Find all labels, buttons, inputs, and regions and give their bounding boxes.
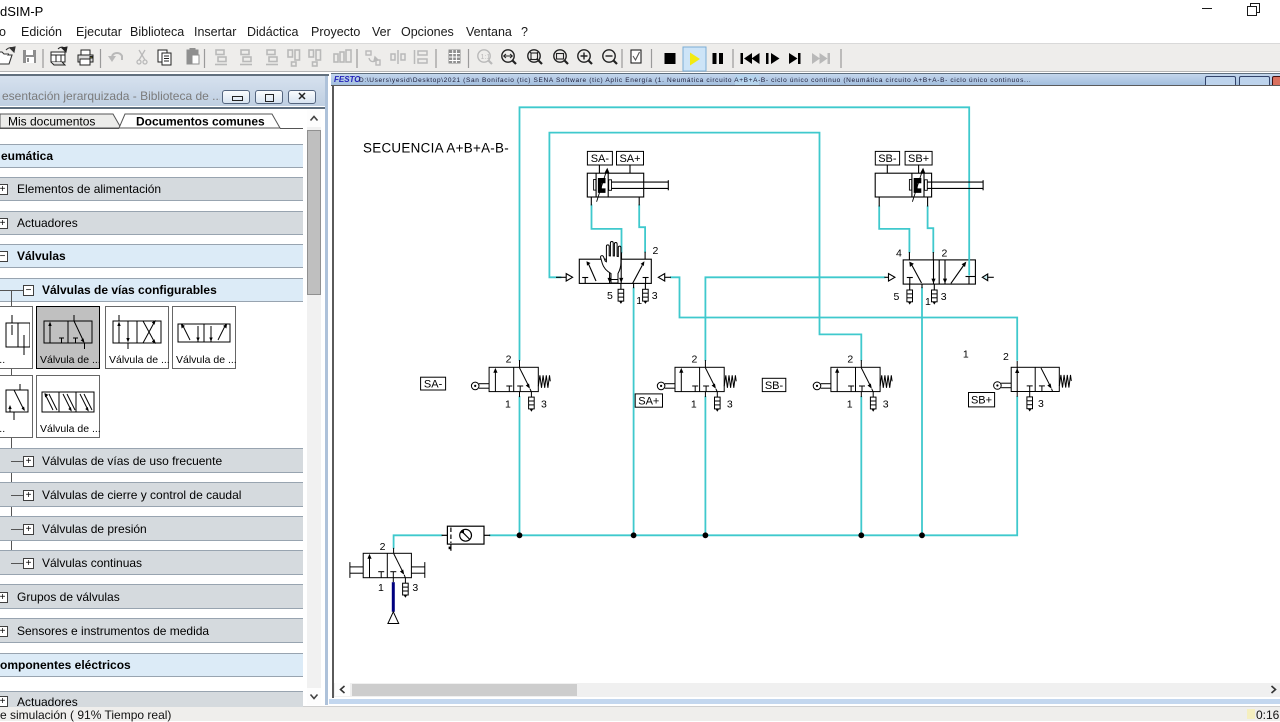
category rows xyxy=(0,448,303,473)
application title bar xyxy=(0,0,1280,22)
pilot port 12 (right) xyxy=(658,274,664,281)
start valve port numbers xyxy=(378,541,418,594)
valve SB+ port numbers xyxy=(963,349,1044,410)
thumbnails xyxy=(0,306,33,369)
menu bar xyxy=(0,22,1280,43)
pilot port 14 (left) xyxy=(884,276,888,278)
shut-off valve (llave de paso) xyxy=(442,526,491,551)
wire: valve A port 1 supply drop xyxy=(633,288,635,535)
restore glyph xyxy=(1250,3,1260,13)
wire: pilot feed overlay into valve V2 right pilot xyxy=(968,259,970,276)
wire: SB- output line from second top rail xyxy=(549,133,861,360)
valve V1 port numbers xyxy=(607,245,659,307)
limit valve SA- (3/2 roller) xyxy=(471,360,550,412)
cylinder A (double acting, retracted) xyxy=(587,165,668,205)
compressed air supply xyxy=(388,612,399,624)
mouse hand cursor xyxy=(601,242,621,284)
cylinder B (double acting, extended) xyxy=(875,165,983,207)
valve V2: 5/2 impulse valve for cylinder B xyxy=(884,252,993,305)
panel title bar xyxy=(0,76,326,106)
pressure line (dark blue) from supply xyxy=(392,582,395,612)
svg-text:Documentos comunes: Documentos comunes xyxy=(136,115,265,129)
wire: supply bus with riser to SB+ valve port 1 xyxy=(490,397,1017,535)
junction node (valve A supply) xyxy=(631,532,637,538)
label SA+ (valve) xyxy=(635,394,662,408)
limit valve SA+ (3/2 roller) xyxy=(657,360,736,412)
valve V2 port numbers xyxy=(894,248,948,309)
port 4 stub xyxy=(621,252,623,259)
tree rows (positions relative to panel top=74) xyxy=(0,144,303,168)
library panel xyxy=(0,74,329,705)
label SA+ xyxy=(617,151,644,165)
label SA- xyxy=(587,151,612,165)
port 3 stub and silencer xyxy=(644,283,646,289)
tabs xyxy=(0,113,329,130)
document canvas xyxy=(331,85,1280,87)
wire: start valve port 2 to shut-off valve xyxy=(394,535,442,548)
port 2 stub xyxy=(644,252,646,260)
pilot port 14 (left) xyxy=(556,276,566,278)
label SB- xyxy=(875,151,899,165)
label SB+ (valve) xyxy=(969,393,995,407)
wire: cylinder B left port to valve B port 4 xyxy=(879,207,909,253)
svg-text:Mis documentos: Mis documentos xyxy=(8,115,95,129)
junction node (start of bus) xyxy=(517,532,523,538)
port 5 stub and silencer xyxy=(909,284,911,290)
port 3 stub and silencer xyxy=(933,284,935,290)
document window title bar xyxy=(331,73,1280,86)
label SA- (valve) xyxy=(421,377,446,390)
label SB+ xyxy=(905,151,932,165)
junction node (SB- supply) xyxy=(858,532,864,538)
wire: cylinder A left port to valve A port 4 xyxy=(592,205,622,252)
start valve V0 (3/2 hand lever, open) xyxy=(350,548,425,598)
pilot port 12 (right, pressurized) xyxy=(982,274,987,281)
limit valve SB- (3/2 roller) xyxy=(813,360,892,412)
valve V1: 5/2 impulse valve for cylinder A xyxy=(556,252,671,304)
limit valve SB+ (3/2 roller, actuated) xyxy=(994,361,1072,412)
wire: cylinder A right port to valve A port 2 xyxy=(639,205,645,251)
panel scrollbar xyxy=(307,110,321,705)
junction node (valve B supply) xyxy=(919,532,925,538)
port 1 stub xyxy=(921,284,923,288)
port 2 stub xyxy=(932,252,934,260)
junction node (SA+ supply) xyxy=(703,532,709,538)
minimize glyph xyxy=(1202,8,1212,10)
port 4 stub xyxy=(908,252,910,260)
label SB- (valve) xyxy=(762,378,786,392)
wire: SA+ output to valve B left pilot xyxy=(705,277,884,535)
status bar xyxy=(0,706,1280,721)
wire: valve A right pilot to SB+ valve port 2 xyxy=(671,277,1017,360)
wire: cylinder B right port to valve B port 2 xyxy=(928,207,934,253)
port 5 stub and silencer xyxy=(620,283,622,289)
svg-text:1:1: 1:1 xyxy=(481,54,491,61)
wire: valve B port 1 supply drop xyxy=(921,288,923,535)
horizontal scrollbar of canvas xyxy=(334,683,1280,697)
panel right frame edge xyxy=(325,76,328,705)
toolbar xyxy=(0,43,1280,72)
wire: SB- valve port1 drop xyxy=(860,397,862,535)
port 1 stub xyxy=(633,283,635,288)
wire: SA- output riser / supply drop (node at x519.5) xyxy=(520,107,970,535)
